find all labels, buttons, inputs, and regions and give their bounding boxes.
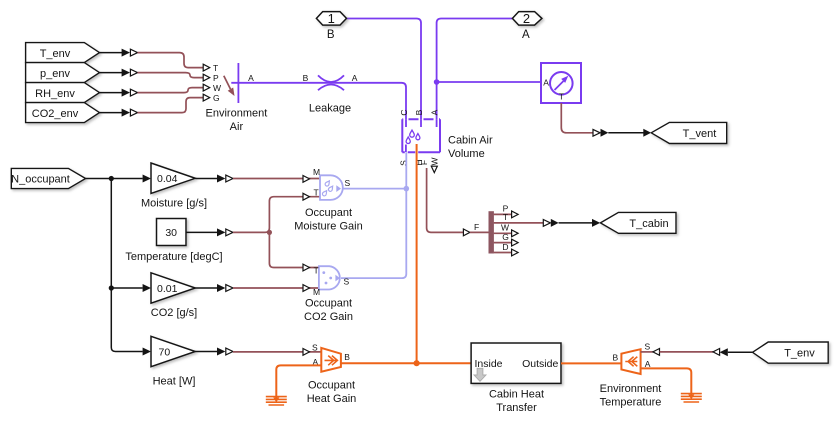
svg-text:S: S [345,178,351,188]
svg-text:CO2 [g/s]: CO2 [g/s] [151,307,197,319]
port G of Environment Air [203,94,210,101]
From tag T_env [26,43,100,63]
wire PS brown CO2_env to Environment Air G [138,98,204,113]
port M CO2 gain [303,285,310,292]
port W of Environment Air [203,84,210,91]
svg-text:B: B [327,29,335,41]
heat gain chevron icon [325,356,338,366]
wire CO2_env to converter [100,112,123,114]
converter T to Simulink [543,220,550,227]
svg-text:Temperature [degC]: Temperature [degC] [125,251,222,263]
wire purple net from port1 B to cabin B port [347,19,422,128]
svg-text:Occupant: Occupant [305,298,352,310]
svg-text:2: 2 [523,11,530,26]
wire orange A port to ground [276,365,321,398]
svg-text:T_cabin: T_cabin [629,218,668,230]
block Occupant Heat Gain trapezoid [321,348,341,372]
svg-text:T_env: T_env [40,48,71,60]
wire black from T_env tag [728,351,753,353]
moisture gain droplets [324,180,330,187]
svg-text:Environment: Environment [206,108,268,120]
node junction orange heat net [414,360,420,366]
selector output P [494,213,512,215]
block Occupant Moisture Gain [320,175,343,200]
port T of Environment Air [203,64,210,71]
moisture gain inner out arrow [336,185,341,192]
ground thermal reference right [681,394,702,402]
svg-text:G: G [502,232,509,242]
wire T_env to converter [100,52,123,54]
svg-text:CO2 Gain: CO2 Gain [304,311,353,323]
svg-text:Cabin Heat: Cabin Heat [489,388,544,400]
svg-text:M: M [313,287,320,297]
svg-text:G: G [213,93,220,103]
block Leakage arcs [318,75,344,82]
block constant 30 [157,219,187,246]
svg-text:S: S [312,342,318,352]
sensor needle [555,81,564,90]
wire brown sensor T to converter [561,103,593,133]
constant out to converter [186,231,217,233]
svg-text:T: T [314,188,319,198]
From tag RH_env [26,83,100,103]
port P of Environment Air [203,74,210,81]
wire orange A to ground right [641,368,692,396]
svg-text:0.01: 0.01 [157,283,178,295]
svg-text:B: B [414,109,424,115]
wire purple Environment Air A through Leakage to cabin C port [231,83,406,127]
selector output W [494,232,512,234]
Heat gain out to converter [195,351,217,353]
svg-text:Transfer: Transfer [496,402,537,414]
port S env temp [641,351,653,353]
svg-text:Cabin Air: Cabin Air [448,135,493,147]
converter to T_vent [593,129,600,136]
wire orange Outside to Environment Temperature B [561,362,621,364]
svg-text:CO2_env: CO2_env [32,108,79,120]
svg-text:30: 30 [165,227,177,239]
svg-text:Leakage: Leakage [309,103,351,115]
port T moisture gain [303,193,310,200]
arrow into Heat gain [143,348,151,356]
wire brown cabin F down to selector F [427,168,464,232]
svg-text:Moisture [g/s]: Moisture [g/s] [141,197,207,209]
Goto tag T_cabin [600,212,676,233]
block Environment Air icon vertical bar [237,63,239,103]
svg-text:Occupant: Occupant [308,380,355,392]
svg-text:T: T [559,92,564,102]
svg-text:A: A [429,109,439,115]
svg-text:Moisture Gain: Moisture Gain [294,221,362,233]
svg-text:T: T [213,63,218,73]
svg-text:1: 1 [328,11,335,26]
block gain Heat 70 [151,336,195,366]
svg-text:F: F [474,222,479,232]
svg-text:S: S [344,277,350,287]
block Environment Temperature trapezoid [621,349,640,374]
svg-text:p_env: p_env [40,68,70,80]
CO2 gain dots [322,271,325,274]
svg-text:B: B [344,352,350,362]
wire brown to M port of moisture gain block [233,178,320,180]
port T CO2 gain [303,264,310,271]
wire black to T_cabin [559,222,593,224]
From tag N_occupant [11,168,85,188]
gray arrow icon inside [474,368,486,381]
selector F input port [463,229,470,236]
svg-text:Occupant: Occupant [305,207,352,219]
svg-text:M: M [313,167,320,177]
node junction at moisture row [109,176,114,181]
svg-text:A: A [352,73,358,83]
selector output G [494,242,512,244]
block Cabin Heat Transfer [471,343,561,383]
arrow into Moisture gain [143,175,151,183]
From tag T_env bottom right [753,342,829,363]
unconnected W port triangle [431,166,437,172]
svg-text:70: 70 [159,346,171,358]
svg-text:F: F [419,160,429,165]
selector output T [494,222,544,224]
svg-text:N_occupant: N_occupant [11,173,70,185]
port S heat gain [303,349,310,356]
block Cabin Air Volume body [402,119,440,152]
arrow into CO2 gain [143,284,151,292]
svg-text:A: A [522,29,530,41]
wire PS brown T_env to Environment Air T [138,53,204,68]
node junction S net [404,186,410,192]
From tag p_env [26,63,100,83]
block gain Moisture 0.04 [151,163,195,194]
port M moisture gain [303,176,310,183]
node junction temperature net [267,230,272,235]
CO2 gain inner out arrow [335,275,340,282]
sensor gauge circle [550,72,573,95]
block measurement selector bar [489,211,494,253]
selector output D [494,252,512,254]
gain out to converter [195,178,217,180]
svg-text:C: C [399,109,409,115]
wire PS brown RH_env to Environment Air W [138,88,204,93]
Goto tag T_vent [651,122,727,143]
svg-text:B: B [612,352,618,362]
svg-text:Environment: Environment [600,383,662,395]
svg-text:Temperature: Temperature [600,397,662,409]
wire light purple cabin S down and left to CO2 gain S [341,152,406,278]
wire purple net from port2 A down to cabin A port [437,19,513,128]
ground thermal reference left [266,397,287,405]
cabin droplet icons [410,130,415,137]
svg-text:T: T [503,212,508,222]
svg-text:Outside: Outside [522,358,558,370]
hexagon port 1 [316,12,346,26]
svg-text:S: S [644,342,650,352]
wire purple branch to sensor A [437,81,541,83]
cabin port stubs C B A inside [406,119,437,127]
wire orange cabin H down to heat line [416,144,418,363]
wire brown to S port of Occupant Heat Gain [233,351,321,353]
CO2 gain out to converter [195,287,217,289]
svg-text:T_env: T_env [784,348,815,360]
env temp chevron icon [625,357,637,367]
node junction A-line [434,79,440,85]
hexagon port 2 [512,12,542,26]
wire PS brown p_env to Environment Air P [138,73,204,78]
svg-text:Volume: Volume [448,148,485,160]
svg-text:A: A [248,73,254,83]
svg-text:Air: Air [230,121,244,133]
wire brown to M port of CO2 gain block [233,287,319,289]
svg-text:B: B [303,73,309,83]
Environment Air brown diagonal arrow [224,76,231,89]
block sensor square [541,63,581,103]
wire brown temperature net with T branches [233,197,320,233]
svg-text:0.04: 0.04 [157,173,178,185]
svg-text:Heat Gain: Heat Gain [307,393,357,405]
svg-text:W: W [213,83,221,93]
svg-text:A: A [543,78,549,88]
node junction at CO2 row [109,285,114,290]
block gain CO2 0.01 [151,273,195,303]
wire black N_occupant trunk [86,178,143,180]
svg-text:T: T [314,265,319,275]
svg-text:Heat [W]: Heat [W] [153,376,196,388]
svg-text:RH_env: RH_env [35,88,75,100]
wire p_env to converter [100,72,123,74]
svg-text:D: D [502,242,508,252]
From tag CO2_env [26,103,100,123]
block Occupant CO2 Gain [319,266,340,289]
wire RH_env to converter [100,92,123,94]
svg-text:P: P [213,73,219,83]
svg-text:T_vent: T_vent [683,128,717,140]
svg-text:W: W [429,157,439,165]
wire light purple moisture gain S to junction [343,188,406,190]
wire brown S to converter [660,351,714,353]
wire orange B to Inside of Cabin Heat Transfer [341,362,471,364]
svg-text:A: A [645,359,651,369]
